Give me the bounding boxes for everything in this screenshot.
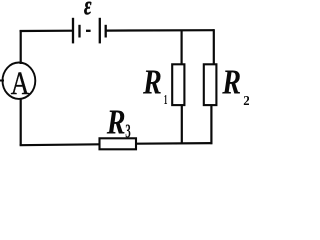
battery B1 short plate 1 xyxy=(78,25,80,38)
battery dash between cells xyxy=(86,30,91,32)
wire R2 branch lower (R2 to bottom-right corner) xyxy=(210,105,212,144)
svg-text:R: R xyxy=(106,103,126,141)
battery B1 short plate 2 xyxy=(105,25,107,38)
svg-text:R: R xyxy=(142,63,162,101)
wire bottom-left horizontal (corner to R3) xyxy=(20,143,100,146)
svg-text:ε: ε xyxy=(84,0,92,20)
resistor R1 body xyxy=(172,64,184,105)
ammeter A circle xyxy=(3,62,36,98)
wire R1 branch lower (R1 to bottom wire) xyxy=(181,105,183,144)
resistor R2 body xyxy=(204,64,217,105)
svg-text:A: A xyxy=(11,66,30,102)
wire top horizontal (battery to top-right corner) xyxy=(106,29,215,32)
wire R2 branch upper (top-right corner down to R2) xyxy=(213,29,215,64)
wire bottom-right horizontal (R3 to bottom-right corner) xyxy=(136,142,212,145)
svg-text:2: 2 xyxy=(243,93,249,108)
ammeter left tick xyxy=(0,80,4,82)
battery B1 long plate 1 xyxy=(72,18,74,44)
svg-text:R: R xyxy=(221,63,241,101)
battery B1 long plate 2 xyxy=(99,18,101,44)
wire left vertical lower (ammeter to bottom corner) xyxy=(20,99,22,145)
svg-text:1: 1 xyxy=(164,93,168,108)
wire left vertical upper (corner to ammeter) xyxy=(20,30,22,64)
wire top-left horizontal (corner to battery) xyxy=(20,30,73,32)
wire R1 branch upper (top wire down to R1) xyxy=(181,31,183,65)
resistor R3 body xyxy=(100,138,137,149)
svg-text:3: 3 xyxy=(125,121,130,142)
